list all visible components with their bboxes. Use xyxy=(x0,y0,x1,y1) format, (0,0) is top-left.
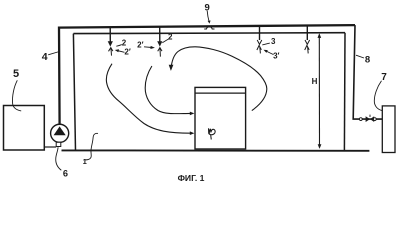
valve V1 stem xyxy=(369,115,371,117)
wire: outer pipe top + left run to pump xyxy=(59,25,355,124)
flow curve A (to lower box arrow) xyxy=(106,64,190,134)
label 7 leader xyxy=(374,81,382,111)
label 2 (first) leader xyxy=(116,45,122,47)
nozzle 2 (first) drop xyxy=(109,27,111,41)
svg-text:H: H xyxy=(312,77,318,86)
label 6 leader xyxy=(56,147,62,170)
nozzle 3 (first) open down head xyxy=(257,40,262,44)
wire: outer pipe right run down to valve line xyxy=(353,25,382,119)
svg-text:2: 2 xyxy=(122,38,127,47)
svg-text:5: 5 xyxy=(13,68,19,80)
svg-text:6: 6 xyxy=(63,169,68,179)
flow curve B (to upper box arrow) xyxy=(145,66,190,114)
nozzle 3 (first) up arrow xyxy=(257,45,262,53)
valve union circle right xyxy=(373,118,376,121)
squiggle mark inside product box xyxy=(209,128,216,139)
H dimension line xyxy=(318,35,320,148)
vent notch 9 bump xyxy=(204,27,214,29)
nozzle 3 (second) drop xyxy=(306,25,308,40)
pump P1 circle xyxy=(51,124,69,142)
svg-text:7: 7 xyxy=(381,72,387,83)
nozzle 3 (second) up arrow xyxy=(305,45,310,53)
label 2' (second) arrow xyxy=(144,46,152,49)
nozzle 2 (second) up arrow xyxy=(158,48,162,57)
tank 7 xyxy=(382,106,395,153)
valve V1 bowtie xyxy=(366,116,370,122)
leader for 9 xyxy=(207,11,209,22)
product box lid line xyxy=(195,92,246,94)
label 2' (first) arrow xyxy=(117,51,125,53)
nozzle 2 (first) up arrow xyxy=(109,48,113,56)
wire: floor line 1 xyxy=(62,149,370,151)
wire: inner chamber left wall xyxy=(73,34,75,151)
tank 5 xyxy=(4,106,45,151)
wire: inner chamber right wall xyxy=(343,33,346,151)
svg-text:2′: 2′ xyxy=(137,40,143,49)
label 5 leader xyxy=(12,80,21,111)
label 2 (second) leader xyxy=(162,39,169,43)
svg-text:3′: 3′ xyxy=(273,51,279,60)
wire: inner chamber top xyxy=(73,32,345,35)
svg-text:1: 1 xyxy=(83,157,87,166)
nozzle 2 (first) filled head xyxy=(108,41,113,46)
wire: tank 5 to pump xyxy=(44,146,56,148)
nozzle 2 (second) drop xyxy=(159,27,161,42)
svg-text:ФИГ. 1: ФИГ. 1 xyxy=(178,173,205,183)
valve union circle left xyxy=(359,118,362,121)
label 3 leader xyxy=(262,43,270,45)
svg-text:9: 9 xyxy=(205,2,210,13)
pump P1 triangle xyxy=(54,126,66,135)
svg-text:8: 8 xyxy=(365,54,370,65)
H arrow down xyxy=(318,144,322,149)
product box (central) xyxy=(195,87,246,149)
svg-text:3: 3 xyxy=(271,37,276,46)
pump P1 outlet square xyxy=(56,142,61,146)
nozzle 3 (first) drop xyxy=(259,26,261,40)
label 4 leader xyxy=(48,52,59,55)
svg-text:4: 4 xyxy=(42,51,48,63)
label 1 leader xyxy=(85,133,98,160)
label 3' arrow xyxy=(266,51,274,55)
label 8 leader xyxy=(356,55,364,58)
H arrow up xyxy=(318,33,322,38)
svg-text:2: 2 xyxy=(168,33,173,42)
svg-text:2′: 2′ xyxy=(124,48,130,57)
flow curve C/D (big loop with down arrow) xyxy=(171,47,267,111)
nozzle 3 (second) open down head xyxy=(305,40,310,44)
nozzle 2 (second) filled head xyxy=(157,41,162,46)
